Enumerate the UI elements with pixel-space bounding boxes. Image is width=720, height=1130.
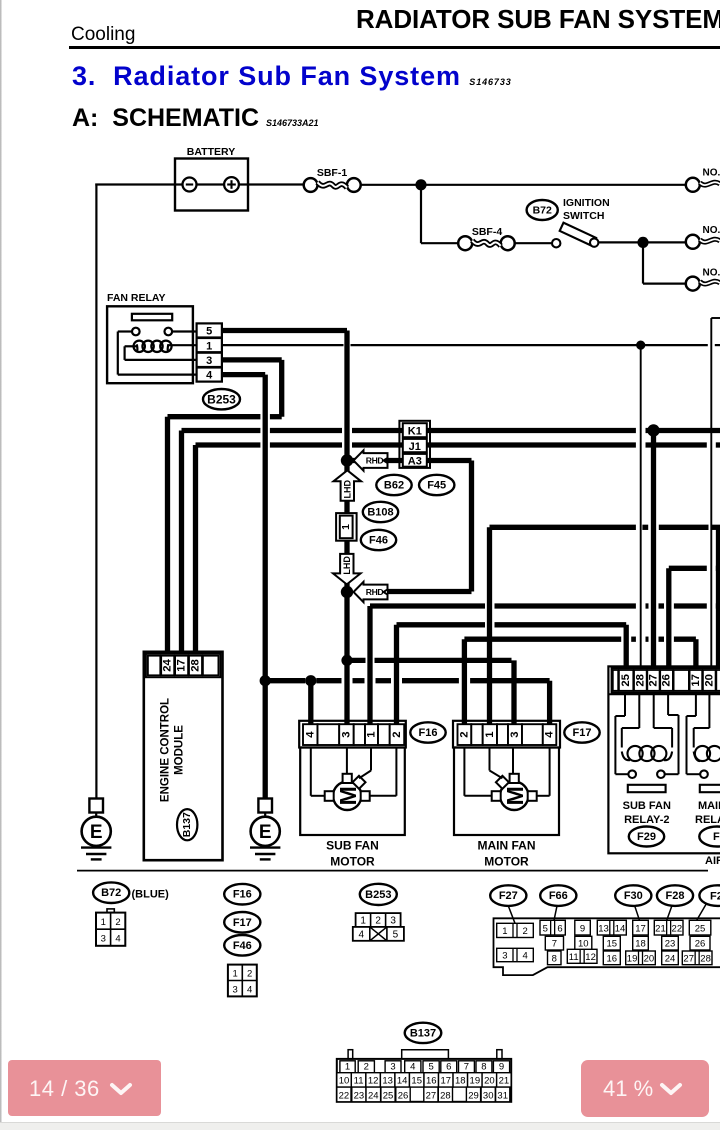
legend fuse cell 25	[689, 920, 711, 935]
legend fuse cell 7	[545, 936, 563, 950]
svg-text:20: 20	[484, 1076, 495, 1087]
wire relay holder pin20 thin	[710, 318, 712, 669]
svg-text:5: 5	[393, 930, 399, 941]
relay MAIN FAN RELAY coil	[695, 746, 710, 761]
zoom button 41%	[581, 1060, 709, 1117]
svg-text:M: M	[335, 786, 361, 805]
relay MAIN FAN RELAY contact wiring	[695, 695, 697, 716]
motor internal wiring	[310, 748, 312, 796]
wire node to sub fan pin3 and main fan pin3	[344, 592, 349, 726]
adapter arrow LHD upper	[334, 470, 362, 501]
svg-text:3: 3	[509, 731, 521, 737]
svg-text:B253: B253	[365, 889, 391, 901]
svg-text:30: 30	[483, 1090, 494, 1101]
fan relay pin 3	[197, 353, 222, 367]
wire relay holder pin28 thin	[640, 345, 642, 669]
svg-text:28: 28	[440, 1090, 451, 1101]
svg-text:22: 22	[339, 1090, 350, 1101]
svg-text:7: 7	[552, 939, 557, 950]
svg-text:F17: F17	[233, 917, 252, 929]
subsection heading A: SCHEMATIC	[72, 104, 319, 133]
svg-text:18: 18	[455, 1076, 466, 1087]
legend fuse cells 21 22	[654, 920, 683, 935]
svg-text:4: 4	[359, 930, 365, 941]
adapter arrow LHD lower	[333, 554, 361, 585]
ground E circle	[82, 817, 111, 846]
svg-text:4: 4	[410, 1061, 415, 1072]
ignition switch contact right	[590, 238, 598, 246]
legend fuse cell 26	[690, 936, 710, 950]
svg-text:B62: B62	[384, 480, 404, 492]
svg-text:5: 5	[543, 924, 548, 935]
svg-text:MAIN FAN: MAIN FAN	[478, 839, 536, 853]
svg-text:25: 25	[383, 1090, 394, 1101]
motor box MAIN FAN MOTOR	[454, 748, 559, 836]
ignition switch blade	[560, 223, 596, 246]
legend fuse cells 5 6	[540, 920, 565, 935]
junction dot relay holder pin27 branch	[647, 424, 659, 436]
legend leader lines	[508, 906, 515, 923]
fan relay pin 1	[197, 338, 222, 352]
svg-text:15: 15	[411, 1076, 422, 1087]
svg-text:M: M	[502, 786, 528, 805]
connector oval B72	[527, 200, 558, 220]
svg-text:28: 28	[634, 674, 646, 687]
svg-text:SWITCH: SWITCH	[563, 210, 604, 222]
wire sub fan pin1 feed	[367, 606, 372, 726]
svg-text:RHD: RHD	[366, 587, 384, 597]
legend connector B72 body	[107, 909, 114, 913]
legend fuse cell 24	[662, 951, 679, 965]
junction dot sub/main fan pin3 branch	[341, 655, 352, 666]
svg-text:22: 22	[672, 924, 683, 935]
svg-text:21: 21	[655, 924, 666, 935]
svg-text:B72: B72	[101, 887, 121, 899]
battery minus terminal	[183, 178, 197, 192]
svg-text:4: 4	[247, 985, 252, 996]
connector oval B62	[376, 475, 411, 495]
svg-text:14: 14	[615, 924, 626, 935]
svg-text:10: 10	[339, 1076, 350, 1087]
junction dot sub fan pin4 ground	[305, 675, 316, 686]
svg-text:19: 19	[470, 1076, 481, 1087]
motor terminal left	[325, 791, 334, 801]
svg-text:F46: F46	[233, 940, 252, 952]
svg-text:17: 17	[176, 659, 188, 672]
svg-text:2: 2	[247, 969, 252, 980]
relay holder pin 25	[619, 670, 633, 691]
main fan pin 2	[458, 724, 472, 745]
ground hatching	[250, 846, 280, 848]
sub fan pin 4	[303, 724, 318, 745]
sub fan pin 2	[390, 724, 405, 745]
svg-text:1: 1	[232, 969, 237, 980]
wire LHD path vertical through F46	[344, 461, 349, 593]
svg-text:K1: K1	[408, 425, 422, 437]
battery plus terminal	[224, 177, 239, 192]
svg-text:12: 12	[368, 1076, 379, 1087]
svg-text:26: 26	[661, 674, 673, 687]
wire main fan pin1 to A/C relay	[487, 527, 492, 726]
sub fan pin 1	[365, 724, 378, 745]
wire right edge vertical	[716, 527, 720, 667]
legend connector oval B137	[405, 1023, 442, 1043]
motor terminal left	[492, 791, 501, 801]
wire relay holder pin26 battery feed	[666, 568, 671, 669]
svg-text:3: 3	[232, 985, 237, 996]
svg-text:SBF-4: SBF-4	[472, 226, 502, 238]
svg-text:16: 16	[426, 1076, 437, 1087]
svg-text:17: 17	[440, 1076, 451, 1087]
svg-text:18: 18	[635, 939, 646, 950]
legend separator rule	[77, 870, 708, 872]
pager button 14/36	[8, 1060, 161, 1116]
header title	[356, 4, 720, 35]
motor M symbol	[500, 782, 528, 810]
svg-text:B137: B137	[410, 1027, 436, 1039]
wire ECM pin28 via J1	[193, 445, 198, 654]
junction dot node RHD/LHD bottom	[341, 586, 353, 598]
fan relay coil wiring	[125, 345, 138, 347]
legend oval F28	[657, 885, 693, 906]
svg-text:SBF-1: SBF-1	[317, 167, 347, 179]
SUB FAN MOTOR connector row	[299, 721, 406, 748]
legend fuse cell 15	[603, 936, 620, 950]
svg-text:1: 1	[502, 926, 507, 937]
ECM pin 17	[175, 656, 188, 676]
svg-text:RELA: RELA	[695, 814, 720, 826]
svg-text:16: 16	[607, 953, 618, 964]
svg-text:9: 9	[580, 924, 585, 935]
svg-text:F30: F30	[624, 890, 643, 902]
section heading 3. Radiator Sub Fan System	[72, 61, 512, 92]
svg-text:3: 3	[340, 731, 352, 737]
page left edge	[0, 0, 2, 1130]
svg-text:E: E	[90, 822, 103, 843]
svg-text:2: 2	[115, 917, 120, 928]
ground E circle	[251, 817, 280, 846]
connector cell A3	[403, 454, 427, 467]
svg-text:13: 13	[382, 1076, 393, 1087]
svg-text:ENGINE CONTROLMODULE: ENGINE CONTROLMODULE	[160, 698, 186, 802]
svg-text:4: 4	[523, 950, 528, 961]
svg-text:10: 10	[578, 939, 589, 950]
legend oval F66	[540, 885, 576, 906]
legend connector oval F16	[224, 884, 260, 905]
legend fuse cell 23	[662, 936, 679, 950]
ground terminal square	[89, 799, 103, 813]
svg-text:17: 17	[635, 924, 646, 935]
wire fan relay pin5 to node RHD	[220, 328, 347, 333]
svg-text:1: 1	[360, 916, 366, 927]
svg-text:14: 14	[397, 1076, 408, 1087]
svg-text:NO.: NO.	[703, 268, 720, 279]
svg-text:6: 6	[446, 1061, 451, 1072]
ECM pin blank right	[203, 656, 219, 676]
svg-text:27: 27	[426, 1090, 437, 1101]
svg-text:1: 1	[484, 731, 496, 737]
svg-text:24: 24	[162, 659, 174, 672]
relay SUB FAN RELAY-2 contact wiring	[624, 695, 626, 716]
svg-text:F16: F16	[233, 889, 252, 901]
legend B253 crossed cell	[370, 927, 387, 941]
svg-text:6: 6	[557, 924, 562, 935]
svg-text:3: 3	[206, 355, 212, 367]
svg-text:1: 1	[101, 917, 106, 928]
legend connector oval B253	[360, 884, 397, 905]
wire battery minus to ground E1	[95, 184, 97, 800]
connector oval F3x	[699, 827, 720, 847]
wire SBF-4 to ignition switch	[515, 242, 553, 244]
svg-text:B72: B72	[533, 205, 552, 217]
svg-text:AIR: AIR	[705, 855, 720, 867]
junction dot node RHD/LHD top	[341, 454, 353, 466]
legend connector B253 body	[356, 913, 401, 927]
svg-text:F66: F66	[549, 890, 568, 902]
fan relay pin 5	[197, 323, 222, 337]
svg-text:RHD: RHD	[366, 456, 384, 466]
connector oval B253	[203, 389, 240, 409]
legend fuse cell 9	[575, 920, 591, 935]
connector cell K1	[403, 423, 427, 437]
fuse SBF-1	[304, 178, 318, 192]
legend fuse cell 18	[633, 936, 649, 950]
svg-text:F28: F28	[666, 890, 685, 902]
fan relay pin 4	[197, 368, 222, 382]
motor internal wiring	[463, 748, 465, 796]
svg-text:RELAY-2: RELAY-2	[624, 814, 669, 826]
svg-text:4: 4	[115, 934, 120, 945]
svg-text:11: 11	[569, 952, 579, 963]
legend fuse cell 8	[548, 951, 562, 965]
svg-text:MAIN: MAIN	[698, 800, 720, 812]
connector oval F29	[629, 827, 664, 847]
ground hatching	[81, 846, 111, 848]
legend B137 row3 pins	[337, 1087, 351, 1102]
legend fuse panel box	[494, 918, 720, 975]
motor terminal right	[528, 791, 537, 801]
fan relay contact wiring	[172, 330, 198, 332]
relay holder box	[608, 666, 720, 853]
svg-text:26: 26	[398, 1090, 409, 1101]
svg-text:2: 2	[375, 916, 381, 927]
relay holder pin 27	[647, 670, 659, 691]
svg-text:5: 5	[206, 326, 212, 338]
battery B1 box	[175, 159, 248, 211]
legend fuse cells 19 20	[626, 951, 656, 965]
relay SUB FAN RELAY-2 coil wiring	[638, 695, 640, 728]
svg-text:F3: F3	[713, 831, 720, 843]
svg-text:4: 4	[544, 731, 556, 738]
svg-text:F46: F46	[369, 535, 388, 547]
svg-text:1: 1	[345, 1061, 350, 1072]
svg-text:2: 2	[523, 926, 528, 937]
wire node to RHD arrow via A3 connector	[352, 458, 472, 463]
svg-text:BATTERY: BATTERY	[187, 146, 235, 158]
svg-text:23: 23	[665, 939, 676, 950]
svg-text:NO.: NO.	[703, 168, 720, 179]
svg-text:2: 2	[364, 1061, 369, 1072]
motor terminal top	[343, 774, 352, 783]
fan relay contact bar	[132, 314, 172, 321]
svg-text:2: 2	[391, 731, 403, 737]
relay holder pin 17	[690, 670, 703, 691]
svg-text:5: 5	[428, 1061, 433, 1072]
svg-text:SUB FAN: SUB FAN	[326, 839, 379, 853]
wire fan relay pin3 to ECM pin24	[220, 357, 282, 362]
fuse NO.3	[686, 277, 700, 291]
wire ignition switch to fuse NO.2	[598, 241, 686, 243]
svg-text:A3: A3	[408, 455, 422, 467]
ECM pin 28	[189, 656, 202, 676]
svg-text:MOTOR: MOTOR	[330, 855, 375, 869]
wire fan relay pin4 to ground E2	[220, 372, 265, 377]
wire sub fan pin2 to relay holder pin25	[394, 625, 399, 726]
svg-text:2: 2	[458, 731, 470, 737]
svg-text:3: 3	[101, 934, 106, 945]
svg-text:20: 20	[644, 953, 655, 964]
header rule	[69, 46, 720, 49]
wire branch down to SBF-4	[420, 185, 422, 243]
svg-text:B137: B137	[181, 812, 193, 837]
ECM pin blank left	[148, 656, 160, 676]
legend oval F27	[490, 885, 526, 906]
MAIN FAN MOTOR connector row	[453, 721, 560, 748]
svg-text:31: 31	[497, 1090, 508, 1101]
wire branch down to fuse NO.3	[642, 242, 644, 283]
svg-text:F45: F45	[427, 480, 446, 492]
svg-text:F17: F17	[573, 727, 592, 739]
junction dot main feed	[415, 179, 426, 190]
legend oval F30	[615, 885, 651, 906]
svg-text:B253: B253	[207, 393, 236, 407]
svg-text:LHD: LHD	[342, 480, 352, 499]
svg-text:IGNITION: IGNITION	[563, 197, 610, 209]
main fan pin 1	[483, 724, 497, 745]
svg-text:4: 4	[206, 370, 213, 382]
wire SBF-1 to fuse NO.1	[361, 184, 687, 186]
connector oval B108	[363, 502, 398, 522]
svg-text:27: 27	[647, 674, 659, 687]
relay holder pin 20	[703, 670, 716, 691]
legend connector oval B72	[93, 882, 129, 903]
connector cell J1	[403, 439, 427, 452]
relay SUB FAN RELAY-2 coil	[627, 746, 642, 761]
relay MAIN FAN RELAY contact post	[700, 770, 708, 778]
legend fuse cell 10	[575, 936, 592, 950]
svg-text:J1: J1	[409, 441, 421, 453]
svg-text:MOTOR: MOTOR	[484, 855, 529, 869]
wire ECM pin17 via K1 to relay holder pin27	[179, 431, 184, 655]
svg-text:8: 8	[481, 1061, 486, 1072]
ECM pin row	[146, 654, 221, 677]
legend fuse cells 11 12	[567, 949, 597, 963]
wire main fan pin2 to relay holder pin17	[464, 637, 621, 642]
svg-text:12: 12	[585, 952, 596, 963]
svg-text:1: 1	[366, 731, 378, 737]
sub fan pin 3	[339, 724, 354, 745]
wire ground bus to motor grounds	[265, 678, 305, 683]
legend B137 row2 pins	[337, 1073, 352, 1087]
relay holder pin 28	[634, 670, 647, 691]
relay holder pin 26	[660, 670, 673, 691]
legend connector oval F17	[224, 912, 260, 933]
legend connector F46 body	[228, 965, 257, 997]
fan relay contact posts	[132, 328, 140, 336]
fan relay coil	[134, 341, 145, 352]
junction dot ground branch	[260, 675, 271, 686]
legend fuse cell 17	[633, 920, 649, 935]
battery internal wire	[176, 183, 247, 185]
motor terminal diagonal	[496, 776, 509, 789]
legend fuse cell 16	[603, 951, 620, 965]
legend oval F29 partial	[699, 885, 720, 906]
svg-text:7: 7	[464, 1061, 469, 1072]
svg-text:28: 28	[700, 953, 711, 964]
wire battery plus to SBF-1	[248, 183, 304, 185]
svg-text:17: 17	[690, 674, 702, 687]
bottom strip	[0, 1122, 720, 1130]
svg-text:F16: F16	[419, 727, 438, 739]
svg-text:NO.: NO.	[703, 225, 720, 236]
svg-text:25: 25	[620, 674, 632, 687]
junction dot pin1 feed to relay holder	[636, 341, 645, 350]
motor box SUB FAN MOTOR	[300, 748, 405, 836]
header breadcrumb Cooling	[71, 24, 135, 46]
svg-text:F29: F29	[637, 831, 656, 843]
relay FAN RELAY box	[107, 306, 193, 383]
wire fan relay pin1 ignition feed	[220, 344, 344, 346]
fuse NO.2	[686, 235, 700, 249]
svg-text:LHD: LHD	[342, 556, 352, 575]
svg-text:28: 28	[190, 659, 202, 672]
connector oval F46	[361, 530, 396, 550]
svg-text:23: 23	[354, 1090, 365, 1101]
svg-text:19: 19	[627, 953, 638, 964]
junction dot ignition output	[637, 237, 648, 248]
svg-text:11: 11	[354, 1076, 364, 1087]
fuse SBF-4	[458, 236, 472, 250]
adapter arrow RHD lower	[354, 582, 388, 602]
relay MAIN FAN RELAY coil wiring	[708, 695, 710, 728]
legend B137 bracket pins 4-6	[402, 1050, 449, 1059]
svg-text:29: 29	[468, 1090, 479, 1101]
svg-text:3: 3	[390, 1061, 395, 1072]
svg-text:27: 27	[683, 953, 694, 964]
svg-text:24: 24	[368, 1090, 379, 1101]
legend fuse cells 27 28	[682, 951, 712, 965]
relay SUB FAN RELAY-2 contact bar	[628, 785, 666, 792]
relay SUB FAN RELAY-2 contact posts	[628, 770, 636, 778]
svg-text:26: 26	[695, 939, 706, 950]
svg-text:SUB FAN: SUB FAN	[623, 800, 671, 812]
svg-text:15: 15	[607, 939, 618, 950]
ignition switch contact left	[552, 239, 560, 247]
connector oval F17	[564, 722, 599, 742]
motor terminal right	[361, 791, 370, 801]
connector oval F16	[410, 722, 445, 742]
motor M symbol	[333, 782, 361, 810]
relay MAIN FAN RELAY contact bar	[700, 785, 720, 792]
svg-text:8: 8	[552, 953, 557, 964]
engine control module box	[144, 652, 223, 860]
svg-text:FAN RELAY: FAN RELAY	[107, 292, 166, 304]
svg-text:3: 3	[390, 916, 396, 927]
connector oval B137 in ECM	[177, 809, 197, 840]
inline connector F46 pin1	[336, 513, 357, 541]
ground terminal square	[258, 799, 272, 813]
svg-text:1: 1	[206, 340, 212, 352]
